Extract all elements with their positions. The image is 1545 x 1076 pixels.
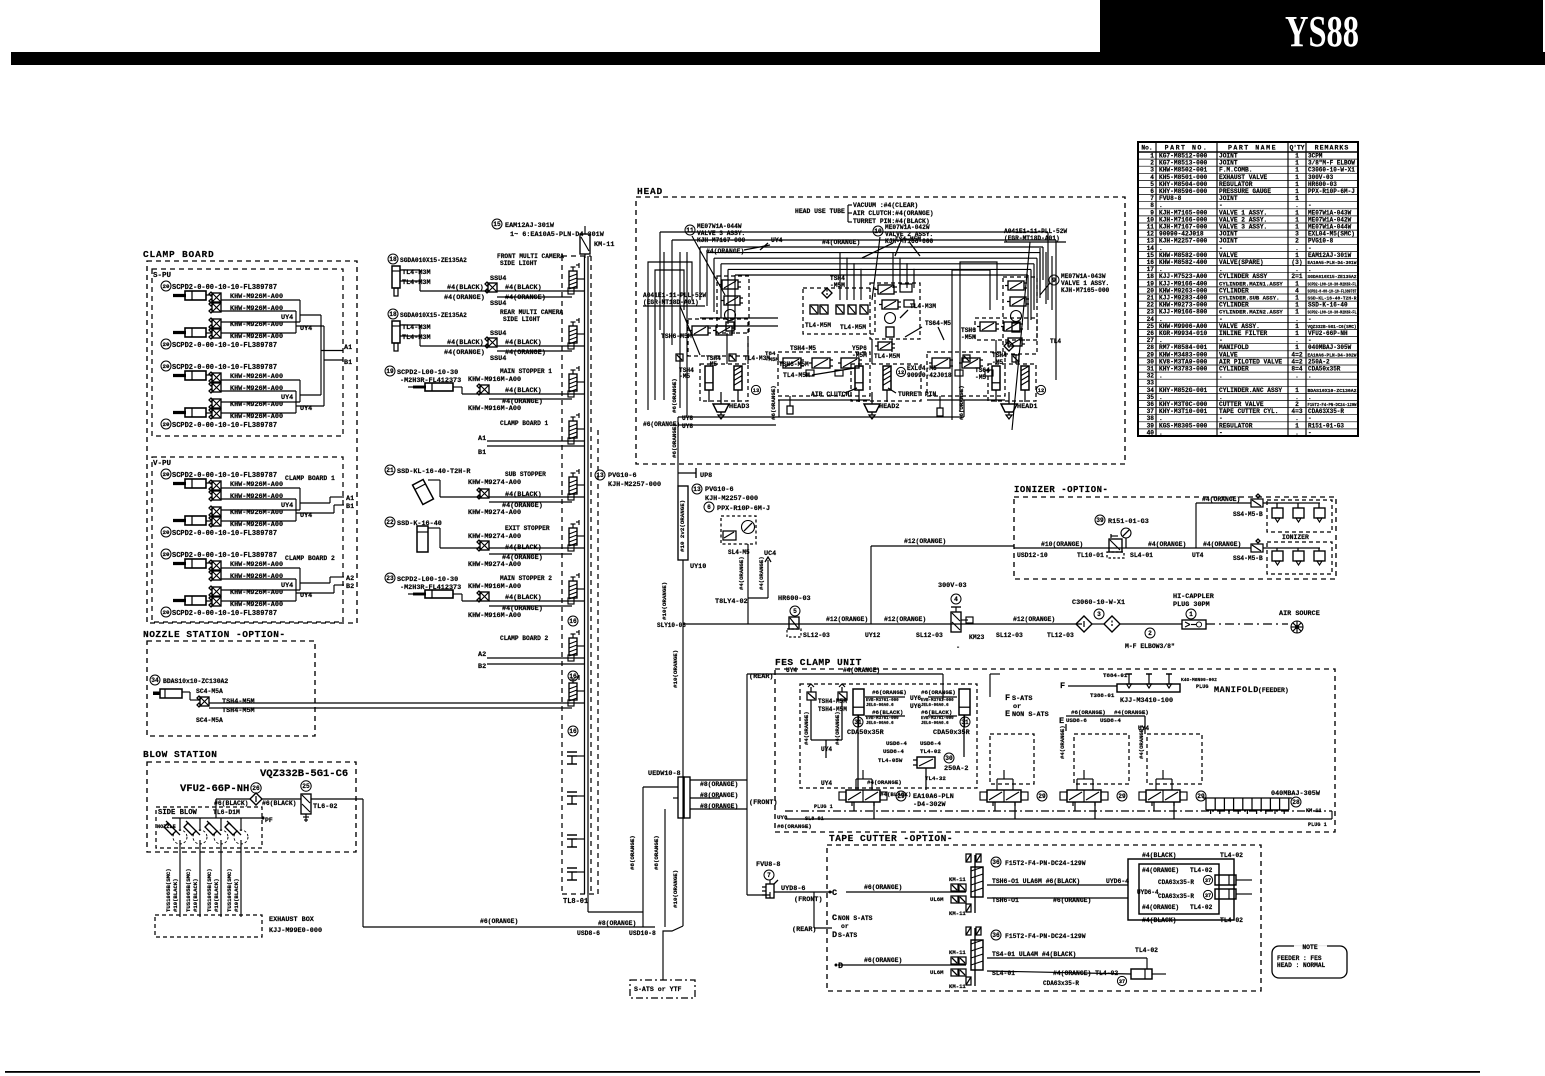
svg-text:-: - [956, 644, 960, 652]
svg-text:UY8: UY8 [777, 814, 788, 821]
side blow header [172, 817, 263, 819]
svg-text:or: or [841, 923, 849, 930]
svg-text:#4(ORANGE): #4(ORANGE) [1138, 725, 1145, 759]
bus vertical trunk wires [584, 256, 586, 894]
svg-text:.: . [1308, 373, 1312, 380]
valve 2 assy label (10) ME07W1A-042W [872, 224, 934, 300]
svg-text:37: 37 [1119, 979, 1125, 985]
wire blow to bottom bus [362, 799, 364, 927]
svg-text:.: . [1308, 266, 1312, 273]
svg-text:.: . [1295, 316, 1299, 323]
svg-text:KJH-M7167-000: KJH-M7167-000 [1159, 224, 1208, 231]
svg-text:HEAD : NORMAL: HEAD : NORMAL [1277, 962, 1326, 969]
svg-text:300V-03: 300V-03 [1308, 174, 1334, 181]
bus fittings plain [567, 751, 577, 753]
clamp board outer dashed box [147, 261, 357, 623]
wire bundle right verticals [1039, 248, 1041, 298]
svg-text:SL12-03: SL12-03 [803, 632, 830, 639]
svg-text:VFU2-66P-NH: VFU2-66P-NH [1308, 330, 1348, 337]
svg-text:VALVE(SPARE): VALVE(SPARE) [1219, 259, 1264, 266]
svg-text:PVG10-6: PVG10-6 [608, 472, 637, 480]
head1 cylinder group [988, 364, 1046, 419]
svg-text:SSD-K-16-40: SSD-K-16-40 [1308, 302, 1348, 309]
top horizontal black bar [11, 52, 1545, 65]
svg-text:EXHAUST BOX: EXHAUST BOX [269, 916, 315, 924]
svg-text:HEAD: HEAD [637, 186, 663, 197]
cutter valve assembly C (36) [930, 854, 1091, 917]
svg-text:#4(ORANGE): #4(ORANGE) [1114, 709, 1149, 716]
svg-text:SSU4: SSU4 [490, 355, 506, 363]
wire bundle nested loops top [660, 232, 1056, 416]
svg-text:#4(ORANGE): #4(ORANGE) [758, 556, 765, 590]
svg-text:PRESSURE GAUGE: PRESSURE GAUGE [1219, 188, 1271, 195]
svg-text:TSH4: TSH4 [830, 275, 845, 282]
svg-text:CLAMP BOARD 1: CLAMP BOARD 1 [500, 420, 549, 427]
svg-text:SGDA010X15-ZE135A2: SGDA010X15-ZE135A2 [400, 312, 467, 319]
svg-text:38: 38 [1147, 415, 1155, 422]
wire to air source dash-dot [1206, 623, 1288, 625]
svg-text:1: 1 [1295, 330, 1299, 337]
svg-text:13: 13 [753, 388, 759, 394]
svg-text:(3): (3) [1291, 259, 1302, 266]
svg-text:#12(ORANGE): #12(ORANGE) [904, 538, 946, 545]
svg-text:TSH4-M5: TSH4-M5 [790, 345, 816, 352]
svg-text:#12(ORANGE): #12(ORANGE) [1013, 616, 1055, 623]
svg-text:TUS1065B(SMC): TUS1065B(SMC) [206, 868, 213, 912]
svg-text:TL4: TL4 [1050, 338, 1061, 345]
wire V-PU upper to A1 B1 [300, 502, 330, 504]
svg-text:SIDE BLOW: SIDE BLOW [158, 809, 198, 817]
svg-text:1: 1 [1295, 224, 1299, 231]
wire C node to rear branch [813, 892, 815, 928]
svg-text:SCPD2-L00-10-30-M2H3R-FL: SCPD2-L00-10-30-M2H3R-FL [1308, 283, 1357, 287]
svg-text:TL4-32: TL4-32 [925, 775, 946, 782]
svg-text:UP8: UP8 [700, 472, 712, 480]
svg-text:2: 2 [1150, 160, 1154, 167]
svg-text:6: 6 [1150, 188, 1154, 195]
svg-text:BDAS10x10-ZC130A2: BDAS10x10-ZC130A2 [163, 678, 228, 685]
svg-text:USD10-8: USD10-8 [629, 930, 656, 937]
svg-text:9: 9 [1150, 209, 1154, 216]
head1 valve cluster right [961, 277, 1061, 381]
svg-text:K4G-M8N99-002: K4G-M8N99-002 [1181, 677, 1217, 683]
svg-text:USD8-4: USD8-4 [1100, 717, 1121, 724]
svg-text:SSD-K-16-40: SSD-K-16-40 [397, 520, 442, 528]
svg-text:VALVE 1 ASSY.: VALVE 1 ASSY. [1219, 209, 1267, 216]
manifold bus TL8-01 dashed box [561, 256, 563, 894]
svg-text:CLAMP BOARD 2: CLAMP BOARD 2 [500, 635, 549, 642]
svg-text:15: 15 [1147, 252, 1155, 259]
svg-text:30: 30 [945, 755, 953, 762]
blow station dashed box [147, 762, 356, 852]
head2 cylinder group [783, 364, 952, 419]
svg-text:UEDW10-8: UEDW10-8 [648, 770, 681, 778]
svg-text:SCPD2-L00-10-30: SCPD2-L00-10-30 [397, 576, 458, 584]
svg-text:TSH4-M5M: TSH4-M5M [818, 698, 847, 705]
svg-text:TSH4-M5M: TSH4-M5M [222, 698, 255, 706]
svg-text:KHW-M9273-000: KHW-M9273-000 [1159, 302, 1208, 309]
svg-text:-: - [1308, 429, 1312, 436]
svg-text:SSU4: SSU4 [490, 330, 506, 338]
wire rear feed [746, 674, 748, 895]
wire C to cutter valve [846, 891, 966, 893]
svg-text:#4(ORANGE): #4(ORANGE) [505, 349, 546, 357]
svg-text:PART NAME: PART NAME [1228, 145, 1277, 152]
svg-text:#6(ORANGE): #6(ORANGE) [480, 918, 518, 925]
svg-text:KJJ-M7523-A00: KJJ-M7523-A00 [1159, 273, 1208, 280]
svg-text:F: F [1005, 693, 1010, 703]
head mid-left dashed valve box [803, 288, 875, 334]
svg-text:2: 2 [1295, 238, 1299, 245]
svg-text:USD12-10: USD12-10 [1017, 552, 1048, 559]
svg-text:TL6-02: TL6-02 [313, 803, 337, 811]
svg-text:REMARKS: REMARKS [1315, 145, 1350, 152]
svg-text:1: 1 [1295, 174, 1299, 181]
svg-text:A1: A1 [346, 495, 354, 503]
svg-text:-: - [1308, 415, 1312, 422]
svg-text:D: D [832, 930, 837, 940]
head outer dashed box [636, 197, 1125, 464]
inline filter VFU2-66P-NH (26) [180, 783, 297, 807]
wire camera1 to bus [419, 270, 421, 291]
svg-text:SL8-01: SL8-01 [805, 816, 824, 822]
svg-text:No.: No. [1141, 145, 1152, 152]
svg-text:#4(BLACK): #4(BLACK) [1142, 917, 1177, 924]
fes middle dashed boxes [990, 734, 1034, 784]
svg-text:CLAMP BOARD 2: CLAMP BOARD 2 [285, 555, 335, 562]
node CLAMP BOARD 1 wires [478, 420, 584, 457]
svg-text:KJH-M7165-000: KJH-M7165-000 [1061, 287, 1110, 294]
svg-text:TL8-01: TL8-01 [563, 898, 588, 906]
svg-text:R151-01-G3: R151-01-G3 [1108, 518, 1149, 526]
title block black box YS88 [1100, 0, 1543, 52]
svg-text:TL4-02: TL4-02 [1190, 904, 1213, 911]
svg-text:11: 11 [1147, 224, 1155, 231]
svg-text:VALVE: VALVE [1219, 351, 1238, 358]
svg-text:#8(ORANGE): #8(ORANGE) [700, 792, 738, 799]
svg-text:20: 20 [163, 421, 170, 428]
svg-text:HEAD1: HEAD1 [1017, 403, 1037, 411]
svg-text:B2: B2 [478, 663, 486, 671]
svg-text:KHW-M3483-000: KHW-M3483-000 [1159, 351, 1208, 358]
svg-text:-: - [1219, 245, 1223, 252]
svg-text:15: 15 [493, 221, 501, 228]
wire S-PU join to A1 B1 [300, 314, 321, 316]
svg-text:34: 34 [151, 677, 159, 684]
label F S-ATS or E NON S-ATS [990, 674, 1049, 719]
svg-text:UY12: UY12 [865, 632, 881, 639]
svg-text:SS4-M5-B: SS4-M5-B [1233, 511, 1263, 518]
svg-text:S-ATS or YTF: S-ATS or YTF [634, 986, 682, 993]
svg-text:KHY-M8504-000: KHY-M8504-000 [1159, 181, 1208, 188]
svg-text:KH5-M8501-000: KH5-M8501-000 [1159, 174, 1208, 181]
svg-text:CYLINDER.MAIN2.ASSY: CYLINDER.MAIN2.ASSY [1219, 309, 1283, 316]
svg-text:KM-11: KM-11 [949, 949, 966, 956]
cylinder cluster S-PU lower (20) [161, 361, 300, 430]
wire nozzle station to bus [209, 702, 584, 704]
svg-text:KJH-M2257-000: KJH-M2257-000 [1159, 238, 1208, 245]
svg-text:F: F [1060, 681, 1065, 691]
svg-text:.: . [1159, 373, 1163, 380]
regulator HR600-03 (5) [778, 595, 830, 639]
svg-text:6: 6 [707, 504, 711, 511]
svg-text:17: 17 [1147, 266, 1155, 273]
svg-text:#10(BLACK): #10(BLACK) [233, 878, 240, 912]
svg-text:SCPD2-0-00-10-10-FL389787: SCPD2-0-00-10-10-FL389787 [1308, 290, 1357, 294]
svg-text:24: 24 [1147, 316, 1155, 323]
svg-text:SCPD2-L00-10-30: SCPD2-L00-10-30 [397, 369, 458, 377]
svg-text:FRONT MULTI CAMERA: FRONT MULTI CAMERA [497, 253, 564, 260]
svg-text:VALVE: VALVE [1219, 252, 1238, 259]
svg-text:HR600-03: HR600-03 [1308, 181, 1337, 188]
svg-text:S-PU: S-PU [153, 272, 172, 280]
svg-text:UY6: UY6 [910, 703, 921, 710]
label A041E1-11-PLL-52W top right [1004, 228, 1067, 430]
svg-text:JOINT: JOINT [1219, 195, 1238, 202]
svg-text:NON S-ATS: NON S-ATS [838, 915, 873, 922]
parts table rows [1147, 153, 1357, 437]
svg-text:B1: B1 [478, 449, 486, 457]
svg-text:.: . [1159, 202, 1163, 209]
svg-text:A1: A1 [344, 344, 352, 352]
svg-text:SSU4: SSU4 [490, 300, 506, 308]
svg-text:20: 20 [163, 529, 170, 536]
svg-text:TS64-M5: TS64-M5 [925, 320, 951, 327]
svg-text:#4(ORANGE): #4(ORANGE) [706, 248, 744, 255]
svg-text:19: 19 [1147, 280, 1155, 287]
svg-text:CYLINDER: CYLINDER [1219, 287, 1249, 294]
svg-text:T884-01: T884-01 [1103, 672, 1128, 679]
svg-text:VALVE 3 ASSY.: VALVE 3 ASSY. [697, 230, 745, 237]
svg-text:AIR PILOTED VALVE: AIR PILOTED VALVE [1219, 358, 1282, 365]
svg-text:or: or [1013, 703, 1021, 711]
svg-text:-M5M: -M5M [961, 334, 976, 341]
svg-text:HEAD USE TUBE: HEAD USE TUBE [795, 208, 845, 215]
svg-text:KJJ-M99E0-000: KJJ-M99E0-000 [269, 927, 322, 935]
svg-text:KHY-M3783-000: KHY-M3783-000 [1159, 366, 1208, 373]
svg-text:JEL6-00A0.6: JEL6-00A0.6 [866, 722, 894, 726]
svg-text:CDA50x35R: CDA50x35R [1308, 366, 1341, 373]
svg-text:#6(ORANGE): #6(ORANGE) [770, 385, 777, 420]
svg-text:KG7-M8513-000: KG7-M8513-000 [1159, 160, 1208, 167]
svg-text:.: . [1159, 429, 1163, 436]
tape cutter dashed box [827, 845, 1261, 991]
wire fes cluster to valves [857, 715, 859, 790]
svg-text:TUS1065B(SMC): TUS1065B(SMC) [226, 868, 233, 912]
svg-text:SL4-M5: SL4-M5 [728, 549, 750, 556]
svg-text:29: 29 [1038, 793, 1046, 800]
valve 1 assy label (9) ME07W1A-043W [1040, 273, 1110, 295]
svg-text:26: 26 [252, 785, 260, 792]
svg-text:.: . [1295, 429, 1299, 436]
svg-text:#4(ORANGE): #4(ORANGE) [1142, 904, 1179, 911]
svg-text:29: 29 [1197, 793, 1205, 800]
svg-text:KJH-M7165-000: KJH-M7165-000 [1159, 209, 1208, 216]
svg-text:#10(BLACK): #10(BLACK) [172, 878, 179, 912]
svg-text:CDA50x35R: CDA50x35R [933, 729, 971, 737]
svg-text:2: 2 [1295, 401, 1299, 408]
svg-text:UY4: UY4 [281, 502, 293, 510]
svg-text:KHY-M3T0C-000: KHY-M3T0C-000 [1159, 401, 1208, 408]
svg-text:ME07W1A-042W: ME07W1A-042W [885, 224, 930, 231]
svg-text:TL4-02: TL4-02 [1190, 867, 1213, 874]
svg-text:#10(ORANGE): #10(ORANGE) [1041, 541, 1083, 548]
svg-text:TUS1065B(SMC): TUS1065B(SMC) [185, 868, 192, 912]
cutter valve assembly D (36) [930, 927, 1118, 990]
svg-text:TSH6-M5M: TSH6-M5M [661, 333, 692, 340]
wire V-PU lower to A2 B2 [300, 582, 330, 584]
svg-text:ME07W1A-043W: ME07W1A-043W [1308, 209, 1352, 216]
bottom border line [5, 1071, 1480, 1073]
node CLAMP BOARD 2 wires [478, 635, 584, 671]
svg-text:040MBAJ-305W: 040MBAJ-305W [1308, 344, 1352, 351]
svg-text:TSH6: TSH6 [961, 327, 976, 334]
svg-text:#10(ORANGE): #10(ORANGE) [672, 870, 679, 908]
svg-text:INLINE FILTER: INLINE FILTER [1219, 330, 1268, 337]
svg-text:TL6-D1M: TL6-D1M [213, 809, 240, 816]
svg-text:RM7-M8584-001: RM7-M8584-001 [1159, 344, 1208, 351]
svg-text:18: 18 [389, 256, 397, 263]
svg-text:KHW-M926M-A00: KHW-M926M-A00 [230, 573, 283, 581]
svg-text:31: 31 [1147, 366, 1155, 373]
svg-text:IONIZER -OPTION-: IONIZER -OPTION- [1014, 485, 1108, 495]
svg-text:EXHAUST VALVE: EXHAUST VALVE [1219, 174, 1268, 181]
svg-text:2: 2 [1148, 630, 1152, 637]
svg-text:10: 10 [1147, 216, 1155, 223]
svg-text:SCPD2-0-00-10-10-FL389787: SCPD2-0-00-10-10-FL389787 [172, 422, 277, 430]
svg-text:MAIN STOPPER 2: MAIN STOPPER 2 [500, 575, 552, 582]
svg-text:35: 35 [1147, 394, 1155, 401]
svg-text:#4(ORANGE): #4(ORANGE) [843, 667, 880, 674]
head3 cylinder group [700, 364, 761, 419]
svg-text:23: 23 [1147, 309, 1155, 316]
svg-text:1: 1 [1295, 181, 1299, 188]
wire #12(ORANGE) riser to ionizer [870, 546, 872, 624]
svg-text:28: 28 [1292, 799, 1300, 806]
svg-text:4=3: 4=3 [1291, 408, 1302, 415]
svg-text:1: 1 [1295, 195, 1299, 202]
svg-text:4: 4 [1150, 174, 1154, 181]
svg-text:TL4-02: TL4-02 [1135, 947, 1158, 954]
svg-text:T388-01: T388-01 [1090, 692, 1115, 699]
svg-text:1: 1 [1295, 295, 1299, 302]
svg-text:KJJ-M3410-100: KJJ-M3410-100 [1120, 697, 1173, 705]
svg-text:KJH-M2257-000: KJH-M2257-000 [608, 481, 661, 489]
svg-text:EVB-M3761-000: EVB-M3761-000 [866, 717, 899, 721]
svg-text:16: 16 [569, 728, 577, 735]
cylinder SGDA010X15-ZE135A2 (18) rear multi camera side light [388, 309, 584, 363]
svg-text:KJJ-M9166-400: KJJ-M9166-400 [1159, 280, 1208, 287]
svg-text:KV8-M3TA9-000: KV8-M3TA9-000 [1159, 358, 1208, 365]
cylinder SGDA010X15-ZE135A2 (18) front multi camera side light [388, 253, 584, 308]
svg-text:VALVE 3 ASSY.: VALVE 3 ASSY. [1219, 224, 1267, 231]
svg-text:VACUUM :#4(CLEAR): VACUUM :#4(CLEAR) [853, 202, 918, 209]
svg-text:KHW-M9906-A00: KHW-M9906-A00 [1159, 323, 1208, 330]
svg-text:32: 32 [1147, 373, 1155, 380]
svg-text:M-F ELBOW3/8": M-F ELBOW3/8" [1125, 643, 1175, 650]
svg-text:28: 28 [1147, 344, 1155, 351]
svg-text:36: 36 [1147, 401, 1155, 408]
svg-text:SCPD2-0-00-10-10-FL389787: SCPD2-0-00-10-10-FL389787 [172, 610, 277, 618]
svg-text:12: 12 [1038, 388, 1044, 394]
cylinder cluster S-PU upper (20) [161, 281, 300, 350]
svg-text:21: 21 [1147, 295, 1155, 302]
svg-text:7: 7 [767, 872, 771, 879]
svg-text:CYLINDER: CYLINDER [1219, 302, 1249, 309]
svg-text:16: 16 [569, 618, 577, 625]
svg-text:B1: B1 [346, 503, 354, 511]
svg-text:22: 22 [386, 519, 394, 526]
svg-text:UY8: UY8 [682, 415, 693, 422]
svg-text:-: - [1219, 429, 1223, 436]
svg-text:#10(ORANGE): #10(ORANGE) [672, 650, 679, 688]
svg-text:UL6M: UL6M [930, 969, 944, 976]
ionizer feed line [1014, 541, 1251, 559]
svg-text:SIDE LIGHT: SIDE LIGHT [503, 316, 540, 323]
svg-text:KHW-M8582-000: KHW-M8582-000 [1159, 252, 1208, 259]
svg-text:SL12-03: SL12-03 [916, 632, 943, 639]
svg-text:1: 1 [1295, 153, 1299, 160]
svg-text:KGR-M9934-010: KGR-M9934-010 [1159, 330, 1208, 337]
bus fittings hatched [569, 271, 577, 288]
svg-text:#8(ORANGE): #8(ORANGE) [700, 803, 738, 810]
svg-text:#12(ORANGE): #12(ORANGE) [826, 616, 868, 623]
svg-text:90990-42J018: 90990-42J018 [907, 372, 952, 379]
svg-text:#6(ORANGE): #6(ORANGE) [643, 421, 680, 428]
svg-text:KM-11: KM-11 [949, 910, 966, 917]
svg-text:-: - [1219, 316, 1223, 323]
svg-text:SC4-M5A: SC4-M5A [196, 717, 223, 724]
svg-text:#4(ORANGE): #4(ORANGE) [803, 711, 810, 745]
svg-text:SSU4: SSU4 [490, 275, 506, 283]
svg-text:EAM12AJ-301W: EAM12AJ-301W [1308, 252, 1352, 259]
svg-text:HEAD2: HEAD2 [879, 403, 899, 411]
svg-text:CDA63x35-R: CDA63x35-R [1158, 879, 1194, 886]
svg-text:C: C [832, 888, 837, 898]
svg-text:8=4: 8=4 [1291, 366, 1302, 373]
svg-text:TL4-02: TL4-02 [920, 748, 941, 755]
svg-text:UYD8-6: UYD8-6 [781, 885, 805, 893]
svg-text:1: 1 [1295, 209, 1299, 216]
svg-text:#6(ORANGE): #6(ORANGE) [671, 423, 678, 458]
svg-text:1: 1 [1295, 344, 1299, 351]
wire #10(ORANGE) long vertical [682, 624, 684, 926]
valve TSH4-M5M nozzle station [182, 688, 255, 724]
svg-text:#4(ORANGE): #4(ORANGE) [738, 556, 745, 590]
svg-text:14: 14 [1147, 245, 1155, 252]
svg-text:PPX-R10P-6M-J: PPX-R10P-6M-J [717, 505, 770, 513]
svg-text:KM-11: KM-11 [949, 876, 966, 883]
svg-text:TL4-M3M: TL4-M3M [910, 303, 936, 310]
svg-text:CYLINDER: CYLINDER [1219, 366, 1249, 373]
svg-text:TL4-M5M: TL4-M5M [874, 353, 900, 360]
wire bundle left verticals [663, 252, 665, 400]
svg-text:S-ATS: S-ATS [1012, 695, 1032, 703]
valve VQZ332B (25) TL6-02 [301, 781, 338, 822]
svg-text:TS64: TS64 [975, 367, 990, 374]
svg-text:SIDE LIGHT: SIDE LIGHT [500, 260, 537, 267]
svg-text:#10(BLACK): #10(BLACK) [192, 878, 199, 912]
svg-text:REGULATOR: REGULATOR [1219, 181, 1253, 188]
joint M-F ELBOW3/8 (2) [1120, 623, 1182, 625]
svg-text:#4(BLACK): #4(BLACK) [1142, 852, 1177, 859]
wire loop mid-left connectors [700, 317, 778, 319]
svg-text:1: 1 [1189, 611, 1193, 618]
svg-text:-M5: -M5 [992, 359, 1003, 366]
svg-text:.: . [1159, 266, 1163, 273]
connector UEDW10-8 [643, 770, 747, 818]
svg-text:EXIT STOPPER: EXIT STOPPER [505, 525, 550, 532]
